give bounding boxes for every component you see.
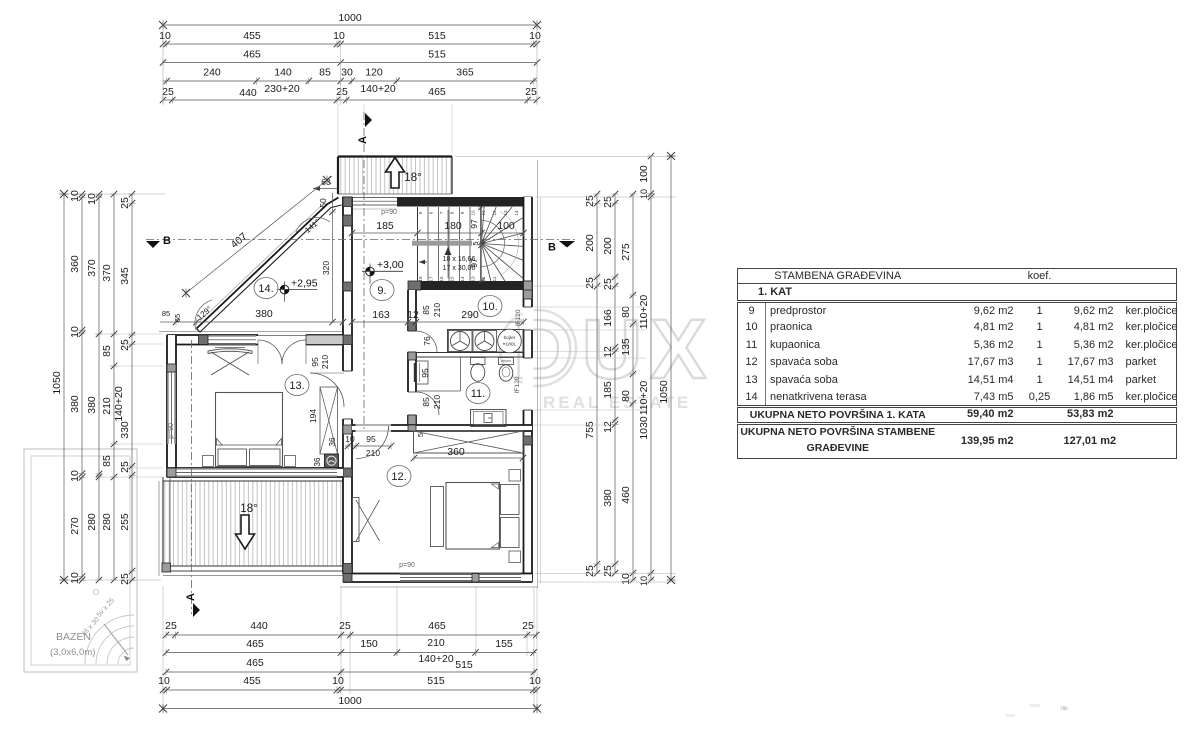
window room 12 south <box>400 574 472 582</box>
outer face line bottom <box>340 586 538 588</box>
angle 129 deg <box>195 300 214 330</box>
svg-text:10: 10 <box>471 210 476 216</box>
dim 63 <box>313 177 338 191</box>
wall between rooms 10 and 11 <box>416 353 524 358</box>
pier south mid room 12 <box>472 574 479 583</box>
pool stairs arcs <box>85 590 134 665</box>
svg-text:210: 210 <box>101 397 113 415</box>
bottom chain 25/440/25/465/25 <box>163 620 540 639</box>
middle wall (between wings) <box>343 197 352 574</box>
svg-text:25: 25 <box>165 620 177 632</box>
svg-text:A: A <box>185 593 197 601</box>
stair south wall <box>408 281 532 290</box>
svg-text:465: 465 <box>428 86 446 98</box>
bath south wall <box>408 425 532 431</box>
section marker A bottom <box>185 593 200 617</box>
svg-text:85: 85 <box>101 455 113 467</box>
svg-text:255: 255 <box>119 513 131 531</box>
bottom chain 1000 <box>159 695 541 713</box>
svg-text:14: 14 <box>514 210 519 216</box>
top chain 465/515 <box>160 49 540 67</box>
svg-text:10: 10 <box>639 189 649 199</box>
svg-text:380: 380 <box>86 396 98 414</box>
svg-text:140: 140 <box>274 67 292 79</box>
svg-text:10: 10 <box>529 675 541 687</box>
section line A vertical top <box>363 112 365 430</box>
svg-text:100: 100 <box>638 165 650 183</box>
dim 36 labels <box>313 437 337 466</box>
pier east mid <box>524 436 533 445</box>
svg-text:25: 25 <box>119 573 131 585</box>
washing machine symbol near wall <box>325 454 339 468</box>
stair walk line with arrow <box>445 210 452 278</box>
shaft with X room 13 <box>320 387 338 454</box>
top chain 25/440/25/465/25 <box>160 83 540 104</box>
dim 180 stair <box>414 220 484 237</box>
svg-text:150: 150 <box>360 638 378 650</box>
svg-text:25: 25 <box>602 565 614 577</box>
stair arrow small <box>419 260 427 265</box>
washbasin vanity <box>415 361 429 384</box>
svg-text:10.: 10. <box>482 301 497 313</box>
svg-text:13.: 13. <box>289 380 304 392</box>
svg-text:85: 85 <box>421 305 431 315</box>
faint scan specks <box>1006 704 1068 717</box>
svg-text:120: 120 <box>365 67 383 79</box>
section marker B left <box>146 235 171 248</box>
svg-text:370: 370 <box>101 264 113 282</box>
svg-text:25: 25 <box>339 620 351 632</box>
corridor-bath wall piers <box>408 322 416 425</box>
svg-text:5: 5 <box>416 433 425 437</box>
clothes rack room 13 <box>208 348 252 376</box>
svg-text:65: 65 <box>173 314 182 322</box>
room label 9 <box>370 280 394 301</box>
left chain 370/85/210/85/280 <box>101 191 125 583</box>
svg-text:185: 185 <box>602 381 614 399</box>
svg-text:25: 25 <box>602 196 614 208</box>
svg-text:10: 10 <box>620 573 632 585</box>
outer face line left wing top <box>159 331 345 333</box>
pool label BAZEN <box>50 631 95 658</box>
svg-text:50: 50 <box>318 198 328 208</box>
room label 14 <box>254 278 278 299</box>
wall bottom (south of room 12) <box>343 574 532 583</box>
svg-text:440: 440 <box>239 87 257 99</box>
svg-text:140+20: 140+20 <box>360 83 395 95</box>
svg-text:370: 370 <box>86 259 98 277</box>
svg-text:A: A <box>357 136 369 144</box>
right chain 1050 <box>658 152 676 584</box>
svg-text:+3,00: +3,00 <box>377 259 404 271</box>
window gap east upper <box>523 307 534 330</box>
corridor to room12 wall <box>352 424 408 433</box>
svg-text:515: 515 <box>455 659 473 671</box>
left chain 1050 <box>51 190 69 584</box>
pier top-right corner <box>524 197 533 207</box>
svg-text:10: 10 <box>345 434 355 444</box>
door dim 85/210 bath <box>421 395 442 409</box>
right chain 25/200/25/755/25 <box>584 191 601 577</box>
svg-text:+2,95: +2,95 <box>291 278 318 290</box>
left wall (west) <box>167 335 176 477</box>
left chain 10/360/10/380/10/270/10 <box>69 190 86 584</box>
dim 320 vertical <box>321 209 336 325</box>
svg-text:180: 180 <box>444 220 462 232</box>
right chain 1030 + window notes <box>638 153 655 586</box>
stair tread numbers bottom <box>418 276 497 282</box>
svg-text:100: 100 <box>497 220 515 232</box>
wall right (east) <box>524 197 533 582</box>
top chain 10/455/10/515/10 <box>159 30 541 48</box>
dim 50 vertical <box>318 193 333 212</box>
svg-text:B: B <box>548 242 556 254</box>
wall top (stair north wall) <box>397 197 532 207</box>
svg-text:36: 36 <box>313 457 322 466</box>
svg-text:210: 210 <box>366 448 380 458</box>
svg-text:380: 380 <box>602 489 614 507</box>
terrace SW pier <box>162 563 171 572</box>
svg-text:5: 5 <box>418 211 423 214</box>
svg-text:194: 194 <box>308 409 318 423</box>
door corridor to room 12 <box>356 426 389 459</box>
TV room 12 <box>353 498 380 542</box>
svg-text:455: 455 <box>243 30 261 42</box>
svg-text:185: 185 <box>376 220 394 232</box>
svg-text:95: 95 <box>310 357 320 367</box>
watermark REAL ESTATE text <box>543 393 691 412</box>
svg-text:7: 7 <box>439 211 444 214</box>
room 13 south wall (glass to terrace) <box>167 468 343 477</box>
door opening middle wall to room 13 <box>342 371 353 419</box>
top extension lines <box>163 20 537 156</box>
svg-text:360: 360 <box>69 255 81 273</box>
pier south-left room 12 <box>343 574 352 583</box>
svg-text:25: 25 <box>602 278 614 290</box>
top chain 1000 <box>159 12 541 30</box>
svg-text:ℓF120: ℓF120 <box>515 309 522 326</box>
pier west mid <box>167 364 176 372</box>
svg-text:p=90: p=90 <box>168 423 175 439</box>
stair handrail grey band <box>412 241 472 246</box>
svg-text:9.: 9. <box>377 285 386 297</box>
washing machine 1 <box>449 331 473 352</box>
svg-text:18°: 18° <box>240 503 257 515</box>
svg-text:85: 85 <box>319 67 331 79</box>
diagonal terrace wall <box>194 198 341 333</box>
svg-text:1050: 1050 <box>658 380 670 404</box>
bathtub <box>471 410 507 427</box>
svg-text:36: 36 <box>328 437 337 446</box>
svg-text:290: 290 <box>461 309 479 321</box>
pier west bottom <box>167 468 176 477</box>
terrace west wall thin <box>163 477 170 571</box>
bidet <box>499 358 514 382</box>
svg-text:515: 515 <box>428 30 446 42</box>
svg-text:97: 97 <box>469 219 479 229</box>
room label 12 <box>387 466 411 487</box>
svg-text:15: 15 <box>450 276 455 282</box>
washing machine 2 <box>473 331 497 352</box>
svg-text:200: 200 <box>602 237 614 255</box>
svg-text:330: 330 <box>119 421 131 439</box>
svg-text:10: 10 <box>159 30 171 42</box>
svg-text:320: 320 <box>321 261 331 275</box>
svg-text:155: 155 <box>495 638 513 650</box>
svg-text:140+20: 140+20 <box>113 386 125 421</box>
section line B horizontal <box>146 239 576 241</box>
svg-text:85: 85 <box>101 345 113 357</box>
svg-text:25: 25 <box>336 86 348 98</box>
area table STAMBENA GRADEVINA <box>737 268 1176 459</box>
section marker B right <box>548 241 575 254</box>
dim 407 diagonal <box>182 176 332 298</box>
stair label 18x16,66 <box>443 256 476 263</box>
svg-text:25: 25 <box>522 620 534 632</box>
svg-text:p=90: p=90 <box>381 209 397 216</box>
dim 380 room13 top <box>173 308 346 326</box>
pier room13 NW <box>167 335 176 345</box>
terrace bottom edge lines <box>159 481 345 576</box>
svg-text:25: 25 <box>119 461 131 473</box>
wall room13 N grey segment <box>306 335 343 345</box>
svg-text:1030: 1030 <box>638 416 650 440</box>
door dim 95/210 room13 <box>310 355 330 369</box>
svg-text:10: 10 <box>69 190 81 202</box>
svg-text:≡180L: ≡180L <box>503 342 517 348</box>
svg-text:280: 280 <box>101 513 113 531</box>
svg-text:97: 97 <box>469 258 479 268</box>
pier east stair corner <box>524 281 533 299</box>
svg-text:80: 80 <box>620 306 632 318</box>
corridor-bath wall <box>408 290 416 425</box>
double door room 13 arcs <box>258 340 306 364</box>
svg-text:166: 166 <box>602 309 614 327</box>
svg-text:10: 10 <box>69 572 81 584</box>
svg-text:5: 5 <box>471 241 480 245</box>
angle 141 deg <box>296 217 330 235</box>
extension lines bottom <box>163 586 537 712</box>
svg-text:110+20: 110+20 <box>638 295 650 330</box>
svg-text:200: 200 <box>584 234 596 252</box>
svg-text:163: 163 <box>372 309 390 321</box>
pool stairs label 5v x 25 <box>96 597 116 619</box>
svg-text:1000: 1000 <box>338 695 362 707</box>
bottom chain 465 <box>163 657 537 676</box>
door opening room 13 north (double door) <box>258 334 306 346</box>
window room 13 north <box>208 335 256 344</box>
svg-text:9: 9 <box>460 211 465 214</box>
svg-text:140+20: 140+20 <box>418 653 453 665</box>
svg-text:10: 10 <box>69 326 81 338</box>
svg-text:380: 380 <box>69 395 81 413</box>
svg-text:10: 10 <box>158 675 170 687</box>
laundry counter room 10 <box>448 330 524 353</box>
svg-text:345: 345 <box>119 267 131 285</box>
stair treads <box>418 207 481 281</box>
svg-text:10: 10 <box>529 30 541 42</box>
svg-text:25: 25 <box>119 339 131 351</box>
svg-text:10: 10 <box>86 193 98 205</box>
svg-text:465: 465 <box>243 49 261 61</box>
svg-text:30: 30 <box>341 67 353 79</box>
svg-text:12: 12 <box>407 309 419 321</box>
svg-text:95: 95 <box>366 434 376 444</box>
room label 10 <box>478 296 502 317</box>
svg-text:18: 18 <box>418 276 423 282</box>
roof north arrow 18 deg <box>386 158 422 189</box>
pier east bottom corner <box>524 573 533 582</box>
IF120 labels <box>514 309 522 393</box>
terrace hatch bottom <box>163 481 345 566</box>
roof hatch top <box>338 157 452 195</box>
window gap east bath <box>523 358 534 410</box>
dim 163/12/290 line <box>349 309 527 326</box>
svg-text:280: 280 <box>86 513 98 531</box>
svg-text:(3,0x6,0m): (3,0x6,0m) <box>50 647 95 658</box>
stair winder treads <box>482 207 524 281</box>
elevation marker +2,95 <box>277 278 318 302</box>
svg-text:13: 13 <box>471 276 476 282</box>
svg-text:bojler: bojler <box>504 335 516 341</box>
svg-text:275: 275 <box>620 243 632 261</box>
svg-text:230+20: 230+20 <box>264 83 299 95</box>
stair label 17x30,00 <box>443 265 476 272</box>
bottom chain 10/455/10/515/10 <box>158 675 541 694</box>
room label 11 <box>466 383 490 404</box>
svg-text:440: 440 <box>250 620 268 632</box>
svg-text:1050: 1050 <box>51 371 63 395</box>
svg-text:465: 465 <box>246 657 264 669</box>
svg-text:135: 135 <box>620 338 632 356</box>
pool stairs label 4s x 30 <box>81 616 101 638</box>
svg-text:25: 25 <box>584 565 596 577</box>
wardrobe with X room 12 <box>414 431 524 453</box>
boiler <box>498 329 522 353</box>
dim 194 shaft <box>308 409 318 423</box>
door dim 85/210 corridor-10 <box>421 303 442 317</box>
svg-text:365: 365 <box>456 67 474 79</box>
bottom chain 465/150/210/155 <box>163 637 537 671</box>
right chain 275/80/135/80/460 <box>620 191 637 585</box>
chain extension lines left <box>59 194 165 580</box>
svg-text:BAZEN: BAZEN <box>56 631 91 643</box>
stair tread numbers top <box>418 210 519 216</box>
svg-text:13: 13 <box>503 210 508 216</box>
room label 13 <box>285 375 309 396</box>
svg-text:16: 16 <box>439 276 444 282</box>
svg-text:25: 25 <box>119 197 131 209</box>
door dim 10 95 210 room12 <box>345 434 394 458</box>
svg-text:380: 380 <box>255 308 273 320</box>
shower partition <box>416 357 461 391</box>
door to bath 11 <box>416 392 439 415</box>
corridor-bath wall door openings <box>407 331 417 415</box>
svg-text:12: 12 <box>602 421 614 433</box>
svg-text:12: 12 <box>602 346 614 358</box>
elevation marker +3,00 <box>362 259 404 284</box>
window room 12 south 2 <box>479 574 521 582</box>
svg-text:85: 85 <box>162 309 170 318</box>
section marker A top <box>357 113 372 144</box>
watermark DUX logo circle <box>500 310 576 386</box>
svg-text:p=90: p=90 <box>399 562 415 569</box>
chain extension lines right <box>455 157 676 583</box>
section line A vertical bottom <box>191 340 193 614</box>
dim 97/5/97 vertical stair <box>469 204 485 284</box>
dim 95 room11 <box>420 368 430 378</box>
terrace arrow 18 deg down <box>236 503 258 549</box>
left chain 25/345/25/330/25/255/25 <box>119 191 136 585</box>
svg-text:755: 755 <box>584 421 596 439</box>
dim 85 65 labels <box>160 309 182 322</box>
svg-text:210: 210 <box>432 303 442 317</box>
svg-text:240: 240 <box>203 67 221 79</box>
svg-text:360: 360 <box>447 446 465 458</box>
svg-text:210: 210 <box>427 637 445 649</box>
svg-text:270: 270 <box>69 517 81 535</box>
pool BAZEN outline <box>24 449 137 672</box>
svg-text:11.: 11. <box>471 388 485 400</box>
watermark DUX text <box>513 302 714 396</box>
svg-text:25: 25 <box>162 86 174 98</box>
svg-text:6: 6 <box>429 211 434 214</box>
svg-text:465: 465 <box>428 620 446 632</box>
left chain 370/380/280 <box>86 191 103 583</box>
svg-text:460: 460 <box>620 486 632 504</box>
svg-text:85: 85 <box>421 397 431 407</box>
svg-text:14.: 14. <box>258 283 273 295</box>
outer face line right <box>538 160 541 588</box>
toilet WC <box>471 358 486 382</box>
window room 13 west <box>167 372 176 444</box>
svg-text:465: 465 <box>246 638 264 650</box>
svg-text:25: 25 <box>584 277 596 289</box>
svg-text:25: 25 <box>525 86 537 98</box>
dim 76 room10 <box>422 336 432 346</box>
svg-text:11: 11 <box>492 276 497 281</box>
pier room13 N mid <box>199 335 209 345</box>
svg-text:10: 10 <box>69 470 81 482</box>
svg-text:515: 515 <box>428 49 446 61</box>
svg-text:ℓF120: ℓF120 <box>514 376 521 393</box>
svg-text:17: 17 <box>429 276 434 282</box>
room 13 north wall <box>167 335 343 345</box>
dim 100 stair <box>482 220 527 237</box>
svg-text:10: 10 <box>639 576 649 586</box>
bed room 12 <box>431 470 521 563</box>
svg-text:515: 515 <box>427 675 445 687</box>
svg-text:12: 12 <box>492 210 497 216</box>
bed room 13 <box>203 393 296 467</box>
svg-text:1000: 1000 <box>338 12 362 24</box>
svg-text:12.: 12. <box>391 471 406 483</box>
pier top-left room 9 <box>343 197 352 207</box>
svg-text:76: 76 <box>422 336 432 346</box>
svg-text:14: 14 <box>460 276 465 282</box>
door corridor to room 13 <box>310 373 344 407</box>
svg-text:B: B <box>163 235 171 247</box>
p=90 labels <box>168 209 415 569</box>
right chain 25/200/25/166/12/185/12/380/25 <box>602 191 619 577</box>
piers middle wall <box>343 197 352 574</box>
svg-text:80: 80 <box>620 390 632 402</box>
window room 9 north <box>351 197 397 209</box>
svg-text:8: 8 <box>450 211 455 214</box>
svg-text:455: 455 <box>243 675 261 687</box>
door corridor to room 10 <box>416 331 437 352</box>
svg-text:10: 10 <box>332 675 344 687</box>
